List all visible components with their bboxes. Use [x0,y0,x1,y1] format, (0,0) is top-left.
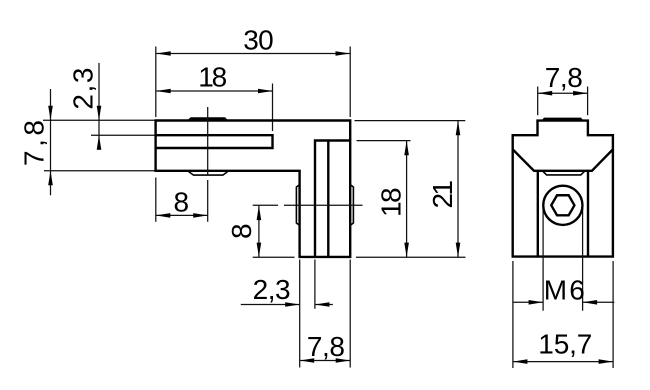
slot edge left [537,171,539,257]
svg-text:30: 30 [243,25,274,56]
dimension M6 [512,275,614,306]
hex socket [551,195,574,215]
horizontal centerline [284,204,363,206]
svg-text:7,8: 7,8 [307,331,345,362]
dimension 18 top [156,61,272,131]
bottom tenon bump side view [188,171,228,175]
svg-text:M6: M6 [544,275,585,306]
dimension 7,8 top right view [538,62,588,115]
svg-text:18: 18 [376,187,407,217]
right tenon bump vertical arm [350,185,353,226]
front view block outline [513,121,613,257]
tongue lines vertical arm [315,141,350,257]
svg-text:18: 18 [198,61,227,92]
svg-text:8: 8 [226,223,257,239]
screw hole circle [543,186,582,225]
dimension 2,3 left [67,63,155,150]
svg-text:21: 21 [427,180,458,209]
dimension 8 horizontal [156,178,208,222]
slot bump front view [543,171,585,175]
svg-text:7,8: 7,8 [545,62,583,93]
dimension 15,7 [513,261,613,368]
tongue lines horizontal arm [156,135,273,148]
dimension 30 [156,25,350,118]
thread silhouette lines [543,206,583,311]
corner bracket side view outline [156,121,351,257]
slot edge right [587,171,589,257]
front view tenon cap [541,118,584,121]
V-notch chamfer lines [513,149,613,170]
svg-text:15,7: 15,7 [538,329,592,360]
dimension 18 right [357,141,411,258]
dimension 7,8 bottom [300,260,351,368]
left tenon bump vertical arm [296,185,299,226]
dimension 2,3 bottom [241,260,333,368]
dimension 8 vertical [226,205,295,257]
top tenon cap side view [187,117,229,121]
svg-text:7,8: 7,8 [19,120,50,166]
svg-text:8: 8 [174,186,190,217]
dimension 7,8 left [19,89,156,195]
svg-text:2,3: 2,3 [67,68,98,110]
svg-text:2,3: 2,3 [253,274,291,305]
dimension 21 right [355,121,466,258]
vertical centerline [207,107,209,222]
